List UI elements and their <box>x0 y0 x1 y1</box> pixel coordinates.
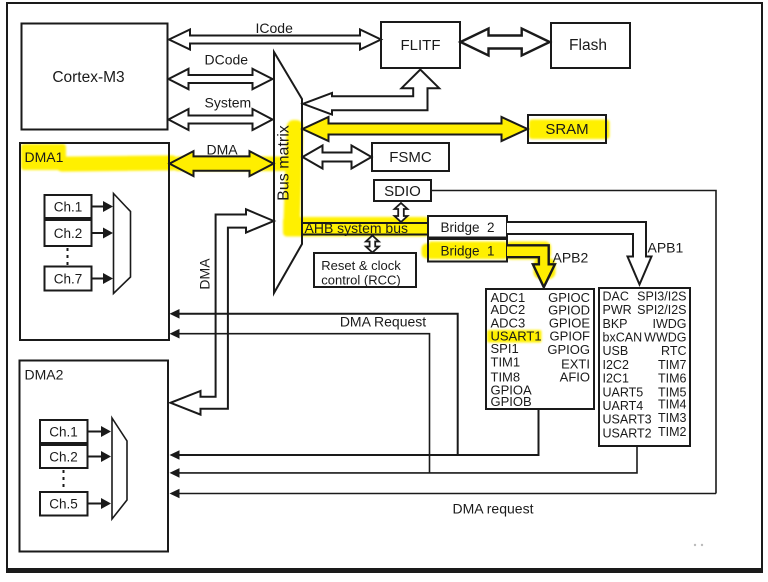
DMA1 ch7 arrow <box>92 278 103 280</box>
svg-text:TIM4: TIM4 <box>658 398 687 412</box>
DMA arrow (yellow) <box>170 151 274 176</box>
svg-text:Bridge 1: Bridge 1 <box>440 244 494 259</box>
DMA2 ch1 arrow <box>88 431 102 433</box>
DMA2 Ch.5 box <box>40 492 88 516</box>
highlight fill Bridge 1 <box>422 244 436 259</box>
svg-text:bxCAN: bxCAN <box>603 331 643 345</box>
wire branch up to DMA1 request <box>179 314 458 455</box>
Flash box <box>551 23 630 68</box>
bus matrix to DMA2 hooked arrow <box>171 209 274 414</box>
DMA1 Ch.7 box <box>45 267 92 291</box>
DMA1 mux <box>114 194 131 294</box>
DMA2 ch5 arrow <box>88 503 102 505</box>
svg-text:SDIO: SDIO <box>384 183 421 200</box>
DMA2 mux <box>112 418 127 519</box>
svg-text:Ch.7: Ch.7 <box>54 272 83 287</box>
FLITF-Flash arrow <box>461 29 550 56</box>
svg-text:AFIO: AFIO <box>560 369 590 384</box>
svg-text:Ch.5: Ch.5 <box>49 497 78 512</box>
svg-text:FLITF: FLITF <box>401 37 441 54</box>
DMA1 box <box>20 143 169 340</box>
DMA2 Ch.1 box <box>40 420 88 443</box>
svg-text:Ch.2: Ch.2 <box>54 226 83 241</box>
svg-text:I2C2: I2C2 <box>603 358 629 372</box>
highlight vertical band along bus matrix <box>283 120 304 237</box>
svg-text:I2C1: I2C1 <box>603 372 629 386</box>
svg-text:Ch.1: Ch.1 <box>54 200 83 215</box>
svg-text:APB2: APB2 <box>553 250 589 266</box>
highlight glow around APB2 arrow <box>505 242 551 260</box>
svg-text:SPI3/I2S: SPI3/I2S <box>637 289 686 303</box>
svg-text:control (RCC): control (RCC) <box>321 273 400 288</box>
svg-text:RTC: RTC <box>661 344 686 358</box>
svg-text:UART5: UART5 <box>603 385 644 399</box>
svg-text:DMA: DMA <box>197 258 213 290</box>
bus matrix - FSMC arrow <box>303 146 372 169</box>
faint dots bottom right <box>694 544 696 546</box>
DMA2 Ch.2 box <box>40 445 88 468</box>
svg-text:DMA: DMA <box>207 142 239 158</box>
SRAM box <box>528 115 606 143</box>
Reset & clock control (RCC) box <box>314 253 416 287</box>
svg-text:DMA request: DMA request <box>453 501 534 517</box>
System arrow <box>169 109 273 130</box>
svg-text:DCode: DCode <box>205 52 249 68</box>
DCode-to-FLITF L arrow <box>303 70 439 115</box>
svg-text:ICode: ICode <box>256 20 294 36</box>
highlight band AHB system bus <box>283 217 429 237</box>
DMA2 dotted line <box>63 470 65 490</box>
svg-text:BKP: BKP <box>603 317 628 331</box>
svg-text:UART4: UART4 <box>603 399 644 413</box>
svg-text:Flash: Flash <box>569 37 607 54</box>
APB2 peripherals box <box>486 289 594 409</box>
svg-text:DAC: DAC <box>603 289 629 303</box>
Cortex-M3 box <box>22 24 168 130</box>
SRAM box fill <box>528 115 606 143</box>
APB2 peripherals box fill <box>486 289 594 409</box>
svg-text:GPIOB: GPIOB <box>491 394 532 409</box>
DMA1 ch2 arrow <box>92 232 103 234</box>
wire branch up to DMA1 request 2 <box>179 334 430 473</box>
svg-text:AHB system bus: AHB system bus <box>305 220 408 236</box>
FLITF box <box>381 22 460 68</box>
SDIO-AHB arrow <box>395 203 408 222</box>
RCC-AHB arrow <box>366 236 379 253</box>
APB1 peripherals box <box>599 288 690 446</box>
svg-text:TIM2: TIM2 <box>658 425 687 439</box>
svg-text:DMA1: DMA1 <box>25 149 64 165</box>
DMA1 dotted line <box>67 248 69 265</box>
Bridge1 to APB2 connector arrow (yellow) <box>507 245 555 287</box>
svg-text:Bridge 2: Bridge 2 <box>440 220 494 235</box>
DMA1 box fill <box>20 143 169 340</box>
highlight in SRAM box <box>529 120 610 140</box>
svg-text:System: System <box>205 95 252 111</box>
svg-text:Ch.1: Ch.1 <box>49 425 78 440</box>
wire APB2 block to DMA2/DMA1 request <box>179 409 539 455</box>
highlight over DMA1 label <box>21 144 66 170</box>
wire SDIO line to DMA2 request <box>179 493 716 495</box>
bus matrix fill <box>274 52 302 293</box>
svg-text:Cortex-M3: Cortex-M3 <box>52 69 124 86</box>
Bridge2 to APB1 connector arrow <box>507 222 652 285</box>
highlight USART1 <box>487 330 542 343</box>
wire APB1 block to DMA2 request <box>179 446 637 473</box>
SDIO line to right <box>432 191 717 494</box>
svg-text:USB: USB <box>603 344 629 358</box>
FSMC box <box>372 143 449 171</box>
svg-text:Ch.2: Ch.2 <box>49 450 78 465</box>
highlight band across DMA1 top <box>56 155 178 171</box>
svg-text:IWDG: IWDG <box>652 317 686 331</box>
svg-text:SPI2/I2S: SPI2/I2S <box>637 303 686 317</box>
ICode arrow <box>169 30 381 50</box>
svg-text:WWDG: WWDG <box>644 331 686 345</box>
svg-text:APB1: APB1 <box>648 240 684 256</box>
svg-text:TIM3: TIM3 <box>658 411 687 425</box>
svg-text:USART2: USART2 <box>603 426 652 440</box>
svg-text:DMA Request: DMA Request <box>340 314 426 330</box>
SRAM arrow (yellow) <box>303 117 528 141</box>
svg-text:Reset & clock: Reset & clock <box>321 258 401 273</box>
DMA1 Ch.1 box <box>45 195 92 218</box>
DCode arrow <box>169 69 273 89</box>
DMA2 box <box>20 361 169 552</box>
svg-text:TIM1: TIM1 <box>491 354 521 369</box>
Bridge 1 box <box>428 239 507 262</box>
svg-text:Bus matrix: Bus matrix <box>276 125 293 201</box>
AHB system bus lines <box>302 222 428 224</box>
svg-text:TIM7: TIM7 <box>658 358 687 372</box>
svg-text:TIM6: TIM6 <box>658 372 687 386</box>
svg-text:SRAM: SRAM <box>545 121 588 138</box>
svg-text:DMA2: DMA2 <box>25 367 64 383</box>
Bridge 2 box <box>428 216 507 238</box>
DMA1 ch1 arrow <box>92 206 103 208</box>
svg-text:GPIOG: GPIOG <box>547 342 590 357</box>
bus matrix <box>274 52 302 293</box>
DMA1 Ch.2 box <box>45 220 92 246</box>
highlight band DMA arrow to bus matrix <box>172 157 299 172</box>
svg-text:PWR: PWR <box>603 303 632 317</box>
DMA2 ch2 arrow <box>88 456 102 458</box>
svg-text:USART3: USART3 <box>603 413 652 427</box>
svg-text:FSMC: FSMC <box>389 149 432 166</box>
Bridge 1 box fill <box>428 239 507 262</box>
SDIO box <box>374 180 431 201</box>
